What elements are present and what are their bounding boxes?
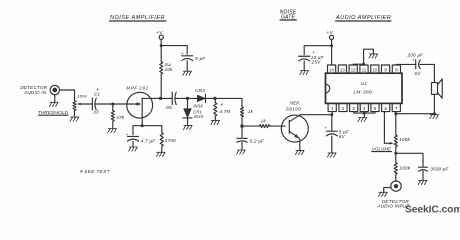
- ground at J2: [379, 192, 388, 196]
- wire Q2 collector to noise gate node: [300, 114, 332, 116]
- svg-text:THRESHOLD: THRESHOLD: [38, 110, 69, 115]
- resistor R4 10k: [160, 62, 163, 75]
- svg-text:+: +: [324, 126, 327, 131]
- svg-text:6V: 6V: [415, 71, 422, 76]
- wire pot to ground: [74, 111, 76, 117]
- svg-text:SEE TEXT: SEE TEXT: [84, 169, 111, 174]
- node source junction: [141, 124, 144, 127]
- svg-text:SeekIC.com: SeekIC.com: [405, 205, 460, 216]
- wire 100k to jack J2: [395, 175, 397, 182]
- diode CR2 IN34: [197, 95, 205, 102]
- svg-text:+V: +V: [156, 30, 163, 36]
- wire +V to 10uF: [304, 46, 331, 55]
- node volume bottom junction: [394, 152, 397, 155]
- capacitor 4.7 uF: [128, 135, 139, 137]
- wire pot wiper: [80, 103, 93, 105]
- svg-text:11: 11: [362, 67, 367, 72]
- wire 10k to drain: [160, 75, 162, 99]
- wire to CR1: [187, 98, 189, 108]
- svg-text:U1: U1: [361, 81, 368, 86]
- node CR1 junction: [186, 97, 189, 100]
- wire bracket to top ground: [364, 49, 374, 64]
- ground at threshold pot: [70, 117, 79, 121]
- svg-text:✳: ✳: [220, 102, 224, 107]
- wire volume pot to 100k resistor: [395, 147, 397, 162]
- capacitor 10 uF 25V: [299, 55, 310, 57]
- wire pin 8 to 200uF: [396, 63, 415, 65]
- svg-text:NOISE AMPLIFIER: NOISE AMPLIFIER: [110, 15, 165, 21]
- wire pin 1 down: [331, 112, 333, 115]
- ground at pins 11-12: [369, 54, 378, 58]
- capacitor 3500 pF: [418, 166, 427, 168]
- svg-text:4.7 µF: 4.7 µF: [141, 139, 156, 144]
- ground at 3500pF: [418, 180, 427, 184]
- node +V audio junction: [330, 44, 333, 47]
- node speaker ground junction: [433, 112, 436, 115]
- wire 47k to ground: [112, 121, 114, 128]
- wire .05 to CR2: [175, 97, 197, 99]
- node pin 11-12 junction: [362, 63, 365, 66]
- svg-text:10: 10: [372, 67, 377, 72]
- wire jack J1 to ground: [54, 95, 56, 102]
- ground at 4.7M: [211, 120, 220, 124]
- transistor Q1 MPF-102: [127, 92, 153, 118]
- capacitor 5 uF: [182, 55, 193, 57]
- ground at 2700: [156, 152, 165, 156]
- pot wiper arrow: [77, 103, 81, 106]
- Q2 emitter arrow: [294, 134, 299, 138]
- svg-text:CR2: CR2: [195, 88, 205, 93]
- transistor Q2 HEP S9100: [281, 115, 308, 142]
- svg-text:13: 13: [340, 67, 345, 72]
- capacitor C1 .33: [91, 98, 93, 110]
- svg-text:.05: .05: [165, 105, 172, 110]
- capacitor .05: [171, 92, 173, 104]
- svg-text:100k: 100k: [77, 94, 87, 99]
- wire node to base 1k: [242, 125, 259, 127]
- wire +V to pin 14: [331, 40, 333, 65]
- wire Q1 source: [141, 111, 143, 125]
- ground at 5uF: [183, 71, 192, 75]
- svg-text:12: 12: [351, 67, 356, 72]
- svg-text:0.2 µF: 0.2 µF: [250, 138, 265, 143]
- diode CR1 IN34: [184, 109, 192, 118]
- resistor 2700: [160, 132, 163, 146]
- ground at 47k: [108, 129, 117, 133]
- svg-text:MPF-102: MPF-102: [126, 85, 148, 90]
- wire 1k to node: [241, 117, 243, 126]
- svg-text:1k: 1k: [261, 118, 267, 123]
- svg-text:VOLUME: VOLUME: [372, 146, 391, 151]
- potentiometer R1 100k THRESHOLD: [73, 100, 76, 111]
- resistor 100k input: [394, 162, 397, 174]
- wire 5uF to ground: [186, 61, 188, 71]
- svg-text:S9100: S9100: [286, 106, 302, 111]
- wire 4.7M to ground: [214, 117, 216, 121]
- ground at CR1: [183, 125, 192, 129]
- wire rail to 2700: [161, 126, 163, 133]
- svg-text:6V: 6V: [339, 134, 346, 139]
- resistor 47k: [111, 110, 114, 121]
- svg-text:LM-380: LM-380: [353, 90, 372, 96]
- wire node to 3500pF: [396, 153, 423, 166]
- wire C1 to Q1 gate: [95, 103, 138, 105]
- node pins 3-4-5 junction: [363, 112, 366, 115]
- svg-text:+: +: [412, 58, 415, 63]
- wire corner to 1k: [241, 98, 243, 106]
- jack J1 detector audio in: [50, 85, 59, 94]
- wire to 47k: [112, 104, 114, 110]
- ground at 5uF 6V: [327, 153, 336, 157]
- jack J2 detector audio input: [391, 181, 401, 191]
- wire node to 0.2uF: [241, 126, 243, 137]
- node gate junction: [111, 103, 114, 106]
- op-amp U1 LM-380: [326, 73, 403, 103]
- ground at 4.7uF: [129, 147, 138, 151]
- svg-text:IN34: IN34: [194, 114, 204, 119]
- ground at pins 3-4-5: [358, 118, 367, 122]
- wire 2700 to ground: [161, 147, 163, 152]
- wire J1 to threshold pot: [60, 90, 75, 100]
- power +V audio amplifier: [330, 35, 334, 39]
- power +V noise amplifier: [159, 35, 163, 39]
- wire 5uF 6V to ground: [331, 136, 333, 153]
- resistor 4.7M: [214, 102, 217, 116]
- svg-text:47k: 47k: [116, 115, 125, 120]
- capacitor 0.2 uF: [237, 137, 247, 139]
- IC top pin boxes 14 13 12 11 10 9 8: [328, 65, 336, 73]
- svg-text:100k: 100k: [399, 137, 410, 142]
- svg-text:+: +: [312, 50, 315, 55]
- ground at J1: [49, 102, 58, 106]
- potentiometer VOLUME 100k: [394, 135, 397, 147]
- resistor 1k base: [259, 125, 270, 128]
- node drain junction: [159, 97, 162, 100]
- wire 200uF to speaker: [420, 64, 434, 82]
- svg-text:+: +: [181, 51, 184, 56]
- wire 1k to Q2 base: [270, 125, 285, 127]
- wire speaker to ground node: [433, 94, 435, 113]
- node 4.7M junction: [213, 97, 216, 100]
- wire J2 sleeve to ground: [384, 188, 391, 192]
- wire source bypass rail: [133, 125, 162, 127]
- wire to 4.7M: [214, 98, 216, 102]
- svg-text:.33: .33: [92, 110, 99, 115]
- svg-text:10k: 10k: [165, 67, 174, 72]
- wire 0.2uF to ground: [241, 142, 243, 150]
- wire rail to 4.7uF: [132, 126, 134, 135]
- svg-text:AUDIO AMPLIFIER: AUDIO AMPLIFIER: [335, 15, 391, 21]
- svg-text:1k: 1k: [248, 109, 254, 114]
- svg-text:AUDIO IN: AUDIO IN: [23, 90, 47, 95]
- svg-text:14: 14: [329, 67, 334, 72]
- svg-text:HEP: HEP: [289, 100, 300, 105]
- ground at Q2: [295, 150, 304, 154]
- wire pin 6 to wiper: [384, 112, 392, 144]
- ground at speaker: [430, 115, 439, 119]
- wire bracket pins 3-4-5: [354, 112, 375, 117]
- wire +V rail to 5uF: [161, 46, 187, 55]
- svg-text:100k: 100k: [399, 165, 410, 170]
- node +V rail junction: [160, 44, 163, 47]
- resistor 1k vertical: [240, 107, 243, 118]
- IC bottom pin boxes 1 2 3 4 5 6 7: [328, 103, 336, 111]
- capacitor 200 uF 6V: [415, 60, 417, 69]
- svg-text:+: +: [126, 132, 129, 137]
- wire pin 7 rail to volume pot: [395, 114, 397, 135]
- svg-text:+V: +V: [326, 30, 333, 36]
- ground at 0.2uF: [237, 150, 246, 154]
- svg-text:3500 pF: 3500 pF: [430, 167, 449, 172]
- wire 10uF to ground: [303, 61, 305, 70]
- svg-text:200 µF: 200 µF: [407, 53, 425, 58]
- wire pin 7 to speaker ground rail: [396, 112, 435, 114]
- wire Q2 emitter to ground: [298, 138, 301, 150]
- speaker: [432, 83, 438, 95]
- svg-text:C1: C1: [94, 92, 101, 97]
- wire +V to R 10k: [160, 39, 162, 61]
- wire CR1 to ground: [187, 118, 189, 125]
- svg-text:4.7M: 4.7M: [219, 109, 230, 114]
- wire 4.7uF to ground: [132, 141, 134, 146]
- wire node to 5uF 6V: [331, 115, 333, 131]
- wire 3500pF to ground: [422, 171, 424, 180]
- node base network junction: [240, 124, 243, 127]
- svg-text:25V: 25V: [311, 60, 322, 65]
- capacitor 5 uF 6V: [326, 130, 337, 132]
- svg-text:IN34: IN34: [193, 104, 203, 109]
- node pin 1 junction: [330, 113, 333, 116]
- wire bracket pins 12-11: [353, 63, 364, 65]
- wire Q1 drain: [142, 97, 172, 99]
- node pin 7 junction: [394, 112, 397, 115]
- wire CR2 to 1k: [206, 97, 243, 99]
- svg-text:2700: 2700: [164, 138, 176, 143]
- volume wiper arrow: [390, 142, 394, 145]
- svg-text:5 µF: 5 µF: [195, 56, 206, 61]
- ground at 10uF: [300, 71, 309, 75]
